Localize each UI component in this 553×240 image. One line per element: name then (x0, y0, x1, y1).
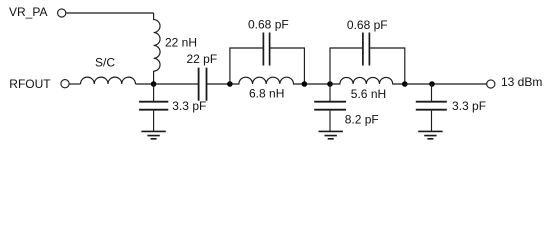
value label 22 nH (165, 36, 197, 50)
capacitor C2 22 pF (199, 68, 207, 101)
inductor L1 22 nH (154, 13, 160, 84)
svg-text:VR_PA: VR_PA (9, 5, 47, 19)
value label 3.3 pF (452, 99, 486, 113)
node D junction (327, 81, 333, 87)
capacitor C1 3.3 pF (139, 84, 168, 131)
svg-text:RFOUT: RFOUT (9, 77, 51, 91)
node E junction (402, 81, 408, 87)
svg-text:8.2 pF: 8.2 pF (345, 112, 379, 126)
svg-text:0.68 pF: 0.68 pF (248, 18, 289, 32)
value label 5.6 nH (351, 87, 386, 101)
value label S/C (95, 56, 115, 70)
inductor L2 S/C (81, 77, 136, 84)
wire (330, 48, 405, 84)
node F junction (429, 81, 435, 87)
wire (304, 83, 330, 85)
value label 8.2 pF (345, 112, 379, 126)
ground (319, 131, 343, 138)
inductor L4 5.6 nH (330, 77, 405, 84)
svg-text:3.3 pF: 3.3 pF (452, 99, 486, 113)
value label 0.68 pF (248, 18, 289, 32)
node output label 13 dBm (501, 75, 542, 89)
wire (207, 83, 230, 85)
ground (418, 131, 442, 138)
svg-text:22 nH: 22 nH (165, 36, 197, 50)
value label 22 pF (187, 52, 218, 66)
wire (230, 48, 305, 84)
svg-text:6.8 nH: 6.8 nH (249, 87, 284, 101)
wire (405, 83, 432, 85)
terminal VR_PA (58, 9, 66, 17)
capacitor C6 3.3 pF (416, 84, 447, 131)
svg-text:22 pF: 22 pF (187, 52, 218, 66)
wire (136, 83, 154, 85)
node C junction (302, 81, 308, 87)
svg-text:S/C: S/C (95, 56, 115, 70)
svg-text:5.6 nH: 5.6 nH (351, 87, 386, 101)
capacitor C3 0.68 pF (263, 33, 269, 66)
node A junction (151, 81, 157, 87)
inductor L3 6.8 nH (230, 77, 305, 84)
node VR_PA label (9, 5, 47, 19)
wire (154, 83, 199, 85)
wire (432, 83, 487, 85)
value label 3.3 pF (172, 99, 206, 113)
capacitor C4 8.2 pF (314, 84, 346, 131)
terminal RFOUT (61, 80, 69, 88)
svg-text:13 dBm: 13 dBm (501, 75, 542, 89)
terminal output (487, 80, 495, 88)
svg-text:0.68 pF: 0.68 pF (347, 18, 388, 32)
svg-text:3.3 pF: 3.3 pF (172, 99, 206, 113)
node RFOUT label (9, 77, 51, 91)
ground (141, 131, 165, 138)
value label 0.68 pF (347, 18, 388, 32)
value label 6.8 nH (249, 87, 284, 101)
wire (66, 12, 154, 14)
node B junction (227, 81, 233, 87)
capacitor C5 0.68 pF (363, 33, 370, 66)
wire (69, 83, 80, 85)
